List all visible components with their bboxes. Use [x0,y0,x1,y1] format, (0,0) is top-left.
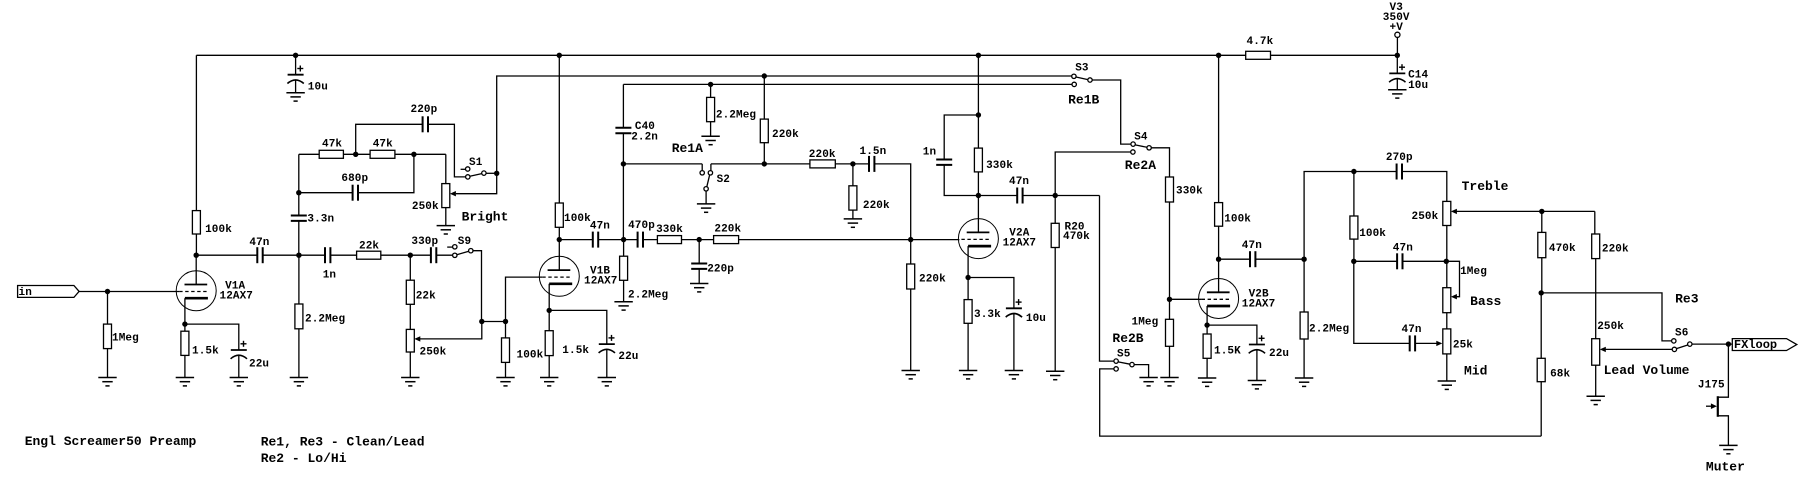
wire 3.3k leads [967,278,969,300]
junction 47k/47k/220p [353,152,358,157]
junction V1A cathode node [182,321,187,326]
wire 2.2Meg to ground [298,329,300,378]
svg-text:2.2n: 2.2n [631,131,658,143]
svg-text:1Meg: 1Meg [1132,317,1159,329]
capacitor 10u (V2A bypass) [1005,299,1046,325]
svg-text:680p: 680p [341,173,368,185]
svg-text:J175: J175 [1698,380,1725,392]
svg-text:100k: 100k [205,224,232,236]
resistor 3.3k (V2A cathode) [964,300,1001,324]
value 2.2n [631,131,658,143]
svg-text:2.2Meg: 2.2Meg [628,290,668,302]
junction C40/Re1A row [621,161,626,166]
label Treble [1462,179,1509,194]
wire node B up to V1B grid [506,277,543,321]
junction 470k/68k/Re3 [1539,290,1544,295]
wire V1B cathode lead [548,284,550,311]
ground under 220p [690,284,708,292]
junction rail/V3 [1395,53,1400,58]
resistor 2.2Meg (V2B) [1300,312,1349,339]
capacitor 47n (V2A coupling) [1009,176,1029,204]
ground under R20 [1046,371,1064,379]
ground under S5 [1139,378,1157,386]
wire 10u top lead [295,55,297,74]
resistor 22k (series) [357,241,381,260]
capacitor 22u (V1B bypass) [598,335,638,363]
junction rail/V2B supply [1216,53,1221,58]
wire 220k mix gnd lead [910,289,912,371]
svg-text:10u: 10u [1408,80,1428,92]
resistor 470k [1538,232,1576,257]
svg-text:1Meg: 1Meg [1460,266,1487,278]
wire 2.2Meg rail3 leads [710,84,712,97]
resistor 100k (V1A plate load) [192,211,232,236]
wire cathode to 22u [185,324,239,350]
svg-text:47n: 47n [1242,240,1262,252]
switch S4 [1131,132,1152,155]
wire volume wiper to S6 [1605,348,1672,350]
switch S3 [1072,63,1093,87]
wire mid gnd lead [1446,354,1448,381]
junction 270p/100k [1351,169,1356,174]
resistor 220k (out) [1592,234,1629,259]
ground under 3.3k [959,371,977,379]
wire bass to mid [1446,313,1448,329]
wire V2A cathode to 10u [968,278,1014,309]
junction FXloop node [1726,341,1731,346]
ground under J175 [1719,445,1737,453]
wire 1.5k to ground [184,355,186,377]
resistor 100k (V2B plate load) [1215,203,1252,227]
svg-text:22u: 22u [249,359,269,371]
ground under V2B 1Meg [1160,378,1178,386]
wiper arrow 250k gain pot [414,336,420,341]
wire 47k row [299,153,446,155]
label Bright [462,210,509,225]
capacitor 1n (series) [323,247,336,282]
wire 330k to plate node [977,172,979,233]
label C40 [635,121,655,133]
switch S1 [461,157,486,179]
potentiometer 1Meg (Bass) [1443,288,1502,313]
svg-text:1n: 1n [323,270,336,282]
svg-text:S1: S1 [469,157,483,169]
wire 2.2Meg V2B gnd lead [1303,339,1305,378]
svg-text:250k: 250k [1412,211,1439,223]
junction 47k/680p/pot [411,152,416,157]
wire 220p shunt leads [698,240,700,284]
wire 1n loop [944,115,978,196]
resistor 330k (series) [656,224,683,243]
svg-text:100k: 100k [564,213,591,225]
capacitor 22u (V1A bypass) [230,341,269,371]
wire Re3 row [1541,293,1671,341]
svg-text:220k: 220k [809,149,836,161]
svg-text:in: in [19,287,32,299]
svg-text:2.2Meg: 2.2Meg [716,109,756,121]
svg-text:100k: 100k [517,350,544,362]
ground under V2B 2.2Meg [1295,378,1313,386]
capacitor 3.3n [290,214,334,226]
junction input/1Meg [105,289,110,294]
svg-text:47n: 47n [249,237,269,249]
ground under gain 250k [401,378,419,386]
ground under mid 220k [844,219,862,227]
switch S5 [1114,348,1134,371]
resistor 220k (shunt mid) [849,186,890,212]
wire FXloop to J175 drain [1718,344,1729,397]
note Re2 Lo/Hi [261,451,347,466]
wire S4 to 330k [1151,148,1169,177]
wire 680p row [299,154,414,192]
wire pot top lead [445,154,447,183]
svg-text:25k: 25k [1453,340,1473,352]
junction 47n/C40/2.2Meg [621,237,626,242]
resistor 2.2Meg (rail3 leak) [707,97,757,121]
wire 100k to V2B plate [1218,226,1220,292]
wire 330k to V2B grid node [1169,202,1171,378]
wire S3 to S4 [1092,80,1131,144]
resistor 220k (rail2) [760,119,799,143]
svg-text:22k: 22k [416,291,436,303]
svg-text:Re2B: Re2B [1112,331,1143,346]
junction tone node C [1444,259,1449,264]
svg-text:S9: S9 [458,236,471,248]
wire 1Meg top lead [107,292,109,325]
wire bass top lead [1446,261,1448,287]
node +V supply [1383,2,1410,37]
svg-text:FXloop: FXloop [1734,338,1777,352]
wire S6 to FXloop [1692,343,1732,345]
resistor 4.7k (rail) [1246,36,1274,59]
svg-text:Re1, Re3 - Clean/Lead: Re1, Re3 - Clean/Lead [261,435,425,450]
wire 250k to ground [409,352,411,378]
resistor 47k (right) [370,139,395,159]
junction 100k/47n tone [1351,259,1356,264]
capacitor 22u (V2B bypass) [1248,335,1289,360]
wire rail2 (to S3) [497,76,1072,173]
wire V2B cathode lead [1206,306,1208,325]
svg-text:330k: 330k [656,224,683,236]
svg-text:100k: 100k [1224,214,1251,226]
svg-text:47k: 47k [322,139,342,151]
wire C40 vertical [622,84,624,239]
svg-text:Bass: Bass [1470,294,1501,309]
wire Re1A row right [711,164,911,240]
op-amp V1B 12AX7 triode [539,256,617,296]
wire V2B plate row [1219,258,1305,260]
wire S2 to ground [705,191,707,204]
wire 220k rail2 leads [763,76,765,164]
wire bass jog [1446,261,1459,296]
potentiometer 250k (gain) [406,329,446,358]
junction rail/V2A supply [976,53,981,58]
svg-text:250k: 250k [1597,321,1624,333]
capacitor C14 10u [1389,64,1429,92]
wire 1.5K gnd lead [1206,358,1208,378]
svg-text:220k: 220k [863,200,890,212]
ground under 1.5K [1198,378,1216,386]
junction 330k/1n top [976,112,981,117]
svg-text:47k: 47k [373,139,393,151]
svg-text:S3: S3 [1075,63,1089,75]
wire R20 gnd lead [1054,248,1056,372]
svg-text:10u: 10u [1026,313,1046,325]
wire input to V1A grid [79,291,179,293]
wire 1Meg bottom lead [107,349,109,378]
wire V2B supply vertical [1218,55,1220,202]
potentiometer 250k (Lead Volume) [1592,321,1625,365]
junction 47n/2.2Meg/tone [1301,257,1306,262]
svg-text:S5: S5 [1117,348,1131,360]
resistor 100k (V1B plate load) [555,203,591,227]
svg-text:22k: 22k [359,241,379,253]
resistor 220k (series) [714,224,742,244]
ground under V1A 1.5k [176,378,194,386]
junction rail3/2.2Meg [708,82,713,87]
svg-text:4.7k: 4.7k [1247,36,1274,48]
wire 68k leads [1540,293,1542,358]
wire 22u V2B gnd lead [1256,350,1258,381]
ground under V1B 1.5k [540,378,558,386]
wire R20 leads [1054,196,1056,224]
label Re2A [1125,158,1156,173]
junction 220k/1.5n/220k [850,161,855,166]
junction V2B grid node [1167,297,1172,302]
op-amp V2A 12AX7 triode [958,219,1036,259]
capacitor 47n (V1A coupling) [249,237,269,264]
op-amp V2B 12AX7 triode [1199,279,1276,319]
node FXloop (output tag) [1732,338,1797,352]
ground under 1Meg [98,378,116,386]
svg-text:Re2 - Lo/Hi: Re2 - Lo/Hi [261,451,347,466]
svg-text:S2: S2 [717,174,730,186]
wire 1.5K leads [1206,325,1208,334]
svg-text:1n: 1n [923,147,936,159]
capacitor 47n (tone upper) [1393,243,1413,270]
wire V2B cathode to 22u [1207,325,1257,344]
wire S5 common to ground [1134,365,1148,378]
ground under V1B 22u [598,378,616,386]
wire rail3 (to S3 lower) [623,83,1072,85]
svg-text:220p: 220p [707,263,734,275]
resistor 47k (left) [319,139,343,159]
resistor 100k (V1B grid) [502,338,544,363]
switch S2 [700,164,730,191]
junction V2A cathode node [965,275,970,280]
ground under Mid 25k [1438,381,1456,389]
wire 22k vert leads [409,255,411,280]
svg-text:Mid: Mid [1464,364,1487,379]
wire J175 source to ground [1718,416,1729,446]
wire 2.2Meg rail3 gnd lead [710,122,712,137]
wire 220k shunt gnd lead [852,210,854,219]
wire 100k tone leads [1353,172,1355,217]
wire V2B grid wire [1170,298,1202,300]
svg-text:47n: 47n [590,221,610,233]
svg-text:250k: 250k [412,201,439,213]
capacitor 470p [628,220,655,248]
wire V2A plate row [978,195,1099,197]
svg-text:330k: 330k [986,160,1013,172]
junction node A [479,319,484,324]
resistor 330k (V2A plate load) [974,148,1013,172]
junction V2B plate node [1216,257,1221,262]
svg-text:12AX7: 12AX7 [220,290,254,302]
wire C14 gnd lead [1396,79,1398,90]
junction node B [503,319,508,324]
junction rail/10u [293,53,298,58]
svg-text:220k: 220k [919,274,946,286]
junction 47n/3.3n/2.2Meg [296,253,301,258]
resistor 100k (tone) [1350,216,1386,240]
switch S9 [447,236,473,258]
svg-text:10u: 10u [308,82,328,94]
wire left 47k down to 680p node [298,154,300,192]
resistor 1.5K (V2B cathode) [1203,334,1241,358]
label Lead Volume [1604,363,1690,378]
junction V1B cathode node [547,308,552,313]
wire mid row [1354,261,1438,343]
wire S1 to rail2 node [486,172,497,174]
wiper arrow bass pot [1451,294,1457,299]
svg-text:2.2Meg: 2.2Meg [1309,324,1349,336]
svg-text:Re1B: Re1B [1068,93,1099,108]
ground under bright pot [437,226,455,234]
wire V1B plate row [559,239,959,241]
label Re1A [672,141,703,156]
svg-text:68k: 68k [1550,369,1570,381]
wire 2.2Meg V1B leads [623,240,625,257]
capacitor C40 2.2n [615,128,632,133]
wire 3.3k gnd lead [967,323,969,370]
svg-text:270p: 270p [1386,152,1413,164]
wire V2A cathode lead [967,246,969,277]
ground under 2.2Meg [290,378,308,386]
svg-text:+V: +V [1390,22,1404,34]
svg-text:Re2A: Re2A [1125,158,1156,173]
svg-text:Muter: Muter [1706,460,1745,475]
junction wiper/470k [1539,209,1544,214]
capacitor 47n (mid) [1402,324,1422,352]
resistor 1.5k (V1A cathode) [181,331,219,357]
junction V2A plate node [976,193,981,198]
wire 220k out leads [1594,211,1596,234]
wire 22u V1B to ground [606,350,608,378]
label Mid [1464,364,1487,379]
svg-text:1.5n: 1.5n [860,146,887,158]
wire 22k to 250k pot [409,304,411,329]
junction rail2/220k [762,73,767,78]
resistor 68k [1537,358,1570,381]
potentiometer 25k (Mid) [1443,329,1474,354]
value 1Meg (Bass) [1460,266,1487,278]
wire 100k to plate node [195,234,197,255]
capacitor 47n (V1B coupling) [590,221,610,249]
wire V1A cathode lead [184,298,186,324]
wire top supply rail [196,54,1397,56]
label Re3 [1675,292,1699,307]
svg-text:470k: 470k [1549,243,1576,255]
node in (input tag) [18,286,80,300]
junction 22k/330p/22k-pot [408,253,413,258]
wire Re1A row left [623,163,702,165]
wire 1.5k leads [184,324,186,331]
svg-text:Engl Screamer50 Preamp: Engl Screamer50 Preamp [25,434,197,449]
wire 1.5k V1B leads [548,310,550,330]
svg-text:12AX7: 12AX7 [584,275,618,287]
wire 10u to ground [295,80,297,93]
svg-text:Lead Volume: Lead Volume [1604,363,1690,378]
wire S5 lower to feedback [1100,369,1542,436]
junction 47n/R20/S4 [1053,193,1058,198]
resistor 1Meg (V2B grid) [1132,317,1174,347]
svg-text:1.5k: 1.5k [562,345,589,357]
wire 470k leads [1541,211,1543,232]
capacitor 680p [341,173,368,201]
wire S1 node down to wiper [456,173,497,193]
wiper arrow lead volume [1600,347,1606,352]
ground under 10u [286,93,304,101]
capacitor 10u (supply filter 1) [287,66,328,94]
svg-text:Bright: Bright [462,210,509,225]
wire V1B supply vertical [558,55,560,203]
label Muter [1706,460,1745,475]
capacitor 220p (bright) [411,104,438,133]
capacitor 47n (V2B coupling) [1242,240,1262,268]
svg-text:Treble: Treble [1462,179,1509,194]
svg-text:100k: 100k [1359,228,1386,240]
ground under V2B 22u [1248,381,1266,389]
svg-text:250k: 250k [420,347,447,359]
junction V1B plate node [557,237,562,242]
ground under Lead Volume [1587,396,1605,404]
svg-text:12AX7: 12AX7 [1003,238,1037,250]
capacitor 1.5n [860,146,887,173]
ground under V1B 2.2Meg [614,302,632,310]
svg-text:220p: 220p [411,104,438,116]
svg-text:Re1A: Re1A [672,141,703,156]
wire treble wiper row [1457,210,1595,212]
wire plate supply vertical [195,55,197,210]
wire V1A plate row [196,254,452,256]
wire 10u V2A gnd lead [1013,314,1015,371]
wire 22u to ground [238,356,240,378]
wire S9 to node A [473,251,482,322]
capacitor 330p (bright-cut) [411,236,438,264]
wiper arrow treble pot [1451,209,1457,214]
wire 68k to feedback [1540,382,1542,436]
label Re1B [1068,93,1099,108]
junction 330k/220p/220k [697,237,702,242]
junction mix node [908,237,913,242]
wire 220p branch [356,124,466,177]
wire node to S4 lower [1055,152,1131,196]
svg-text:330k: 330k [1176,186,1203,198]
resistor 220k (mix shunt) [907,264,946,289]
junction 680p/3.3n [296,190,301,195]
ground under C14 [1388,90,1406,98]
wire treble pot bottom [1446,226,1448,262]
wire V2A supply vertical [977,55,979,148]
ground under V1B 100k [496,378,514,386]
wire node B down to 100k [505,322,507,338]
switch S6 [1672,328,1692,352]
wire bright pot to ground [445,208,447,226]
svg-text:47n: 47n [1393,243,1413,255]
svg-text:S6: S6 [1675,328,1688,340]
svg-text:470p: 470p [628,220,655,232]
